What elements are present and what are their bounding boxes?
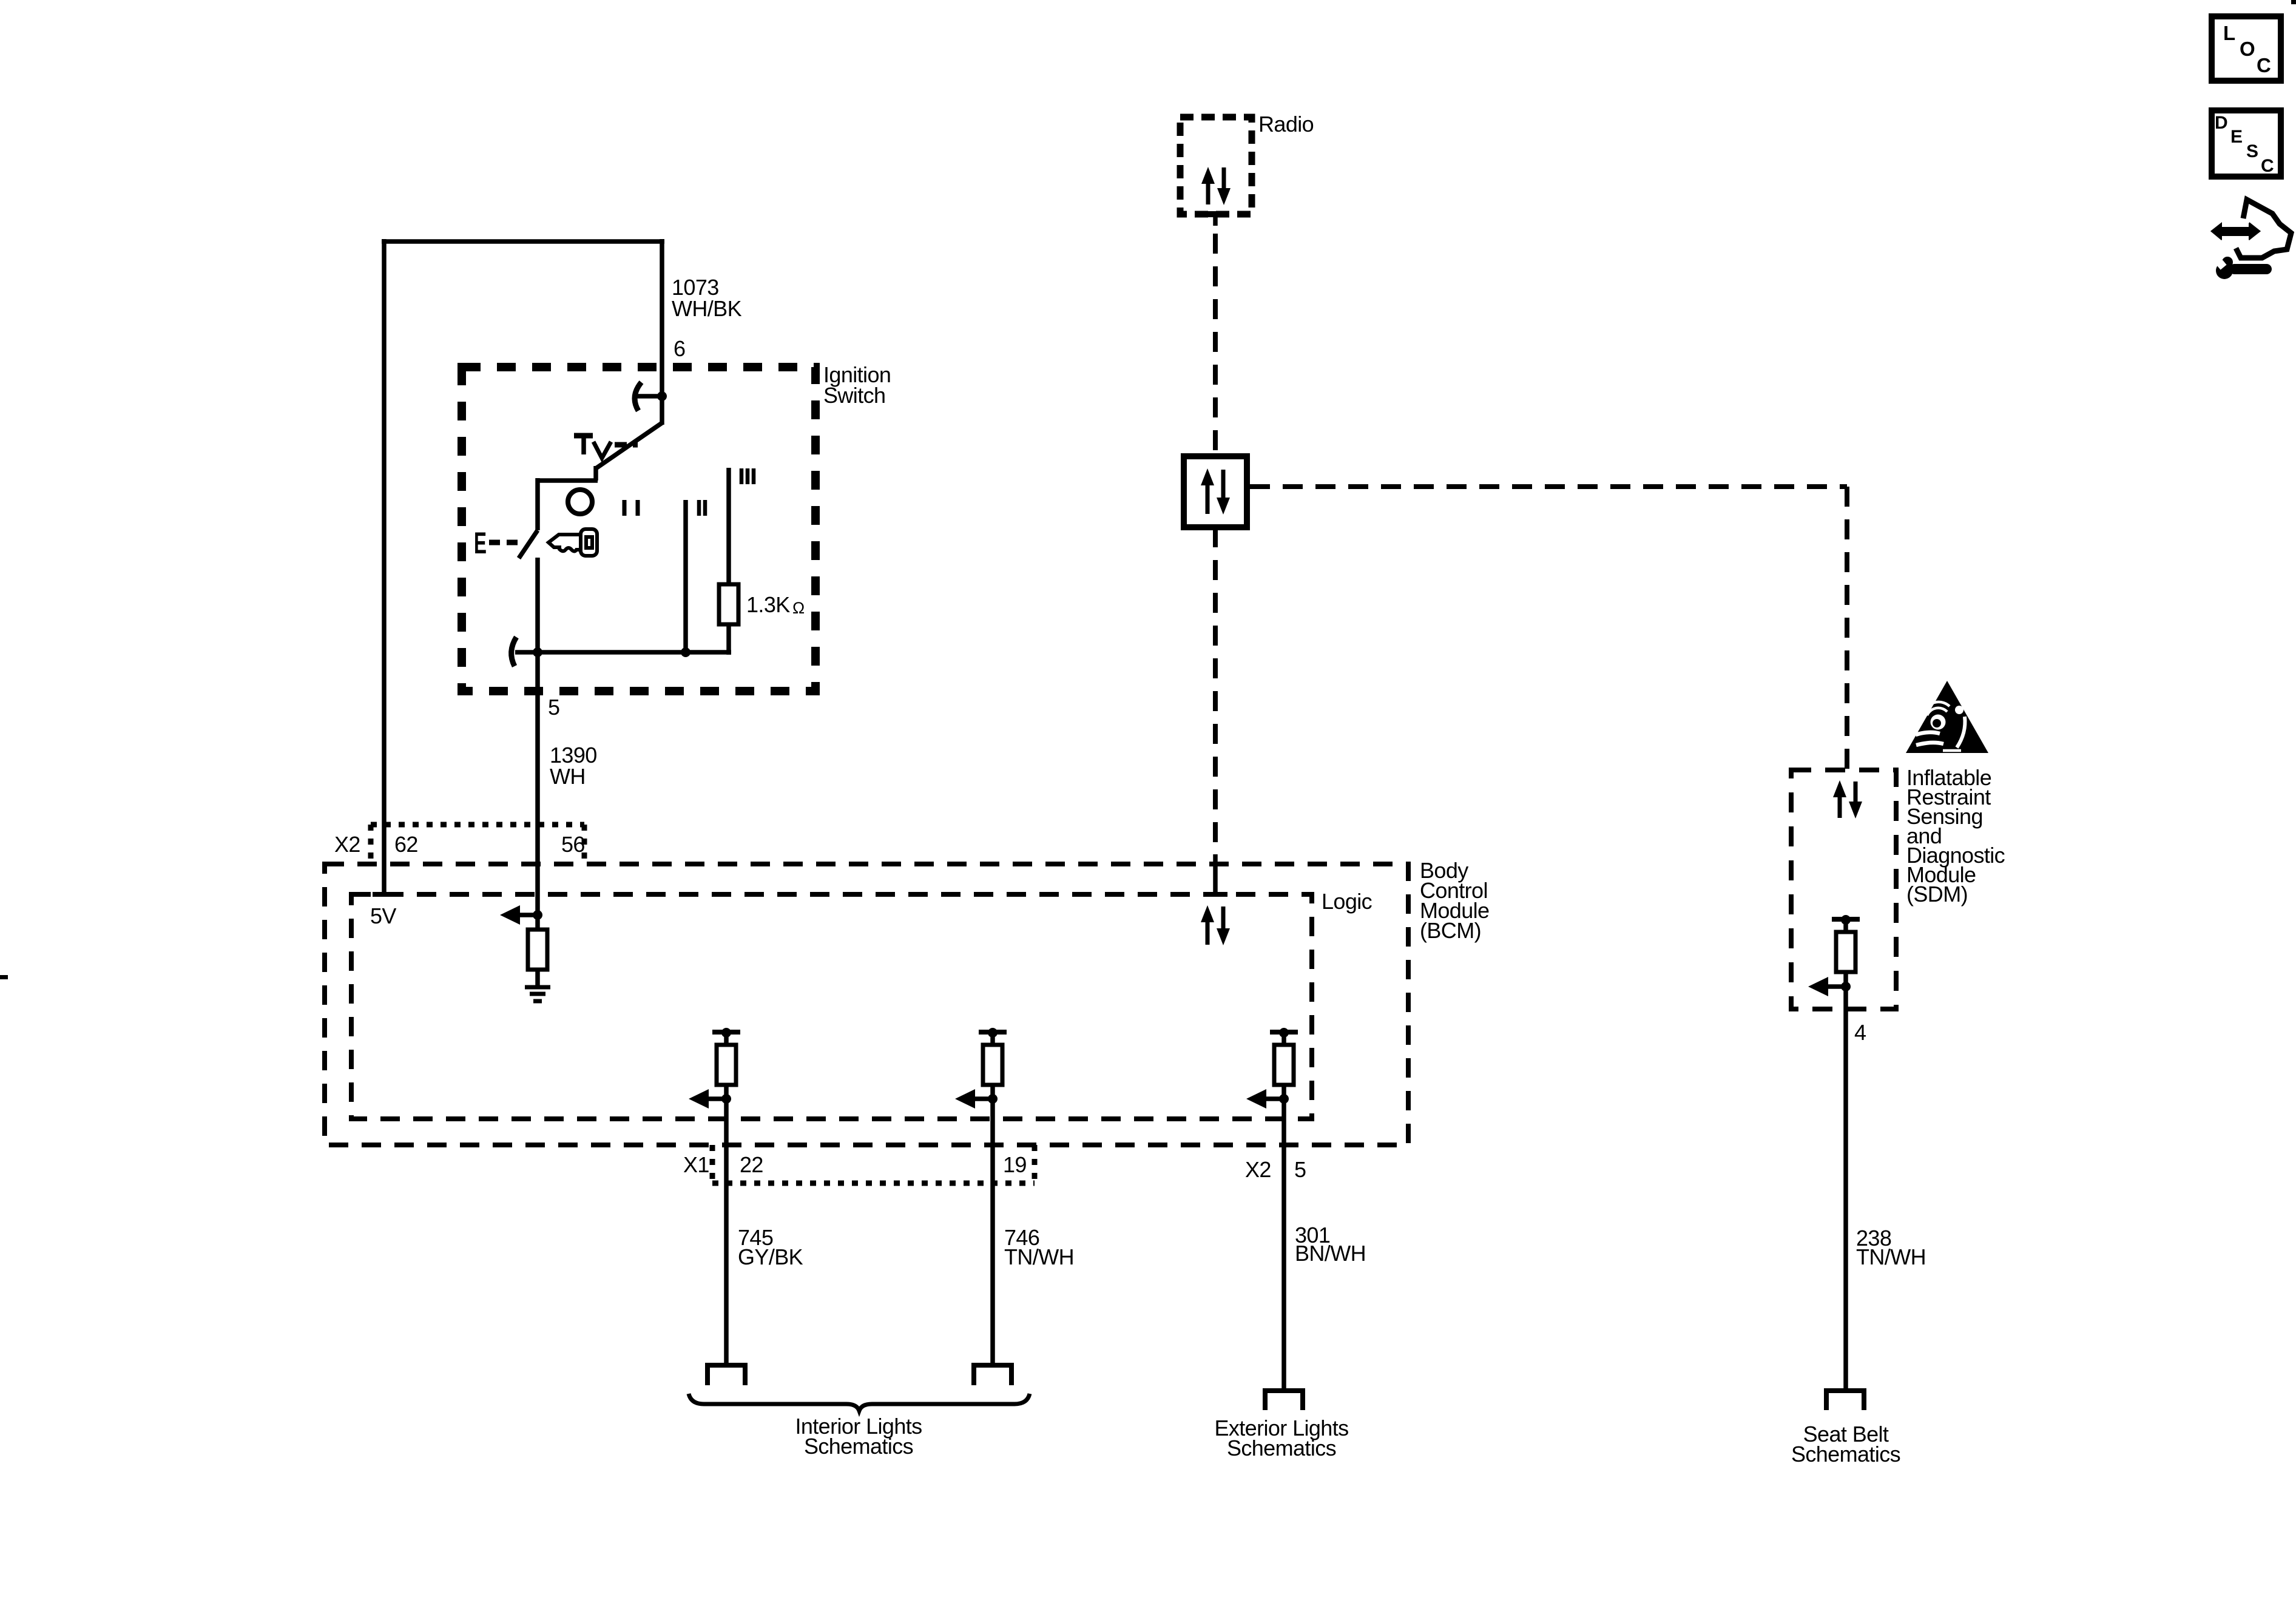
- key hole: [586, 537, 592, 548]
- wire II vertical: [683, 500, 688, 652]
- svg-text:L: L: [2223, 22, 2235, 44]
- junction bus inside switch: [515, 650, 731, 655]
- svg-text:22: 22: [740, 1152, 763, 1177]
- BCM outer dashed box: [325, 864, 1408, 1145]
- svg-text:4: 4: [1854, 1020, 1866, 1045]
- wire 301 BN/WH: [1281, 1099, 1286, 1389]
- position I tick marks: [624, 500, 638, 516]
- svg-text:(SDM): (SDM): [1906, 882, 1968, 906]
- key head: [581, 529, 597, 556]
- svg-text:S: S: [2246, 141, 2258, 161]
- label Exterior Lights Schematics: [1214, 1416, 1348, 1460]
- LOC letters: [2223, 22, 2271, 76]
- wire 238 TN/WH: [1843, 987, 1848, 1390]
- pull-up resistor branch pin 19: [955, 1028, 1007, 1109]
- pull-up resistor branch pin 5 X2: [1246, 1028, 1298, 1109]
- svg-text:Schematics: Schematics: [1227, 1436, 1336, 1460]
- solid pin stub into BCM logic: [1213, 854, 1218, 897]
- node dot pin 5 common: [533, 647, 542, 657]
- wire 746 TN/WH: [990, 1099, 995, 1363]
- dashed serial data line gateway to SDM: [1250, 484, 1847, 489]
- wire 1390 WH vertical: [535, 652, 540, 915]
- SDM dashed box: [1791, 770, 1896, 1009]
- wire III vertical: [726, 468, 731, 655]
- dashed serial data line down to SDM box: [1845, 487, 1849, 770]
- pin stub crossbar 62 at logic edge: [373, 892, 396, 897]
- connector hook terminal at pin 5: [512, 637, 516, 666]
- label 1.3K ohm: [746, 592, 805, 617]
- DESC letters: [2215, 113, 2274, 176]
- svg-text:Schematics: Schematics: [804, 1434, 913, 1459]
- svg-text:BN/WH: BN/WH: [1295, 1241, 1366, 1266]
- position II tick marks: [699, 500, 705, 516]
- label 746 TN/WH: [1004, 1225, 1074, 1269]
- label 745 GY/BK: [738, 1225, 803, 1269]
- svg-text:X1: X1: [683, 1152, 709, 1177]
- switch blade contact: [519, 530, 538, 558]
- label 238 TN/WH: [1856, 1226, 1926, 1269]
- wire left vertical 5V feed: [382, 239, 387, 897]
- resistor pull-down 56: [528, 930, 547, 970]
- crossbar at radio box bottom: [1203, 211, 1227, 217]
- svg-text:62: 62: [394, 832, 418, 857]
- svg-text:Switch: Switch: [823, 383, 885, 408]
- repair icon double arrow: [2210, 222, 2261, 240]
- dashed serial data line radio to gateway: [1213, 234, 1218, 456]
- arrow output 56 signal: [500, 905, 538, 925]
- brace interior lights: [689, 1394, 1030, 1411]
- position III tick marks: [741, 468, 754, 484]
- radio pin stub: [1213, 214, 1218, 226]
- svg-text:Radio: Radio: [1258, 112, 1314, 137]
- Logic inner dashed box: [351, 894, 1312, 1119]
- svg-text:Ω: Ω: [792, 599, 805, 617]
- svg-text:5: 5: [1294, 1157, 1306, 1182]
- svg-text:E: E: [474, 526, 487, 560]
- dashed serial data line gateway to BCM: [1213, 527, 1218, 854]
- svg-text:56: 56: [561, 832, 585, 857]
- svg-text:WH: WH: [550, 764, 586, 789]
- node dot 56: [533, 910, 542, 920]
- DESC icon box: [2212, 110, 2281, 177]
- label Inflatable Restraint Sensing and Diagnostic Module (SDM): [1906, 765, 2005, 906]
- repair icon wrench: [2216, 257, 2272, 279]
- label 1390 WH: [550, 743, 597, 789]
- svg-text:5: 5: [548, 695, 559, 720]
- wire top horizontal feed: [382, 239, 664, 244]
- repair icon part outline: [2236, 200, 2291, 258]
- label 1073 WH/BK: [672, 275, 742, 321]
- svg-text:O: O: [2240, 38, 2255, 60]
- serial data arrows in SDM: [1833, 780, 1862, 819]
- label Seat Belt Schematics: [1791, 1422, 1900, 1467]
- svg-text:Schematics: Schematics: [1791, 1442, 1900, 1467]
- serial data arrows in BCM logic: [1201, 905, 1230, 945]
- ignition switch dashed box: [462, 367, 815, 691]
- connector hook terminal at pin 6: [635, 382, 662, 411]
- position O circle (OFF): [568, 490, 592, 514]
- switch wiper diagonal (ignition switch rotor): [538, 423, 662, 530]
- svg-text:TN/WH: TN/WH: [1856, 1244, 1926, 1269]
- label Body Control Module (BCM): [1420, 858, 1489, 943]
- off-page terminal wire 746: [974, 1365, 1011, 1385]
- key icon: [549, 535, 582, 552]
- svg-text:D: D: [2215, 113, 2228, 133]
- wire 745 GY/BK: [724, 1099, 729, 1363]
- svg-text:E: E: [2230, 127, 2243, 147]
- label Interior Lights Schematics: [795, 1414, 922, 1459]
- page edge artifact top right: [2291, 0, 2296, 4]
- serial data gateway box: [1184, 456, 1247, 527]
- svg-text:GY/BK: GY/BK: [738, 1244, 803, 1269]
- svg-text:X2: X2: [334, 832, 360, 857]
- wire resistor to ground: [535, 970, 540, 987]
- svg-text:(BCM): (BCM): [1420, 918, 1481, 943]
- pull-up resistor in SDM: [1808, 915, 1860, 996]
- LOC icon box: [2212, 16, 2281, 81]
- off-page terminal wire 301: [1265, 1391, 1303, 1410]
- connector X2 top dotted box: [371, 825, 584, 864]
- wire from blade to common junction: [535, 558, 540, 654]
- svg-text:Logic: Logic: [1322, 889, 1373, 914]
- svg-text:WH/BK: WH/BK: [672, 296, 742, 321]
- svg-text:C: C: [2257, 54, 2271, 76]
- svg-text:C: C: [2261, 156, 2274, 176]
- serial data arrows in gateway box: [1201, 468, 1230, 515]
- node dot wire II junction: [681, 647, 690, 657]
- node junction dot pin 6: [657, 391, 667, 401]
- resistor 1.3K: [719, 584, 738, 624]
- lock position symbol: [574, 436, 638, 458]
- wire to internal resistor: [535, 915, 540, 930]
- serial data arrows in radio box: [1201, 167, 1231, 205]
- dashed pointer from E to blade: [489, 540, 518, 545]
- svg-text:TN/WH: TN/WH: [1004, 1244, 1074, 1269]
- pull-up resistor branch pin 22: [689, 1028, 740, 1109]
- wire 1073 WH/BK vertical: [660, 239, 664, 425]
- svg-text:19: 19: [1003, 1152, 1027, 1177]
- svg-text:6: 6: [674, 336, 685, 361]
- off-page terminal wire 238: [1826, 1391, 1864, 1410]
- page edge artifact left: [0, 975, 8, 979]
- label 301 BN/WH: [1295, 1223, 1366, 1266]
- crossbar at logic edge: [1204, 892, 1227, 897]
- svg-text:5V: 5V: [370, 903, 396, 928]
- ground symbol: [525, 987, 550, 1001]
- off-page terminal wire 745: [707, 1365, 745, 1385]
- label Ignition Switch: [823, 362, 891, 408]
- svg-text:X2: X2: [1245, 1157, 1271, 1182]
- connector X1 dotted box: [712, 1145, 1035, 1183]
- svg-text:1.3K: 1.3K: [746, 592, 790, 617]
- Radio dashed box: [1180, 117, 1252, 214]
- warning triangle airbag: [1906, 681, 1988, 753]
